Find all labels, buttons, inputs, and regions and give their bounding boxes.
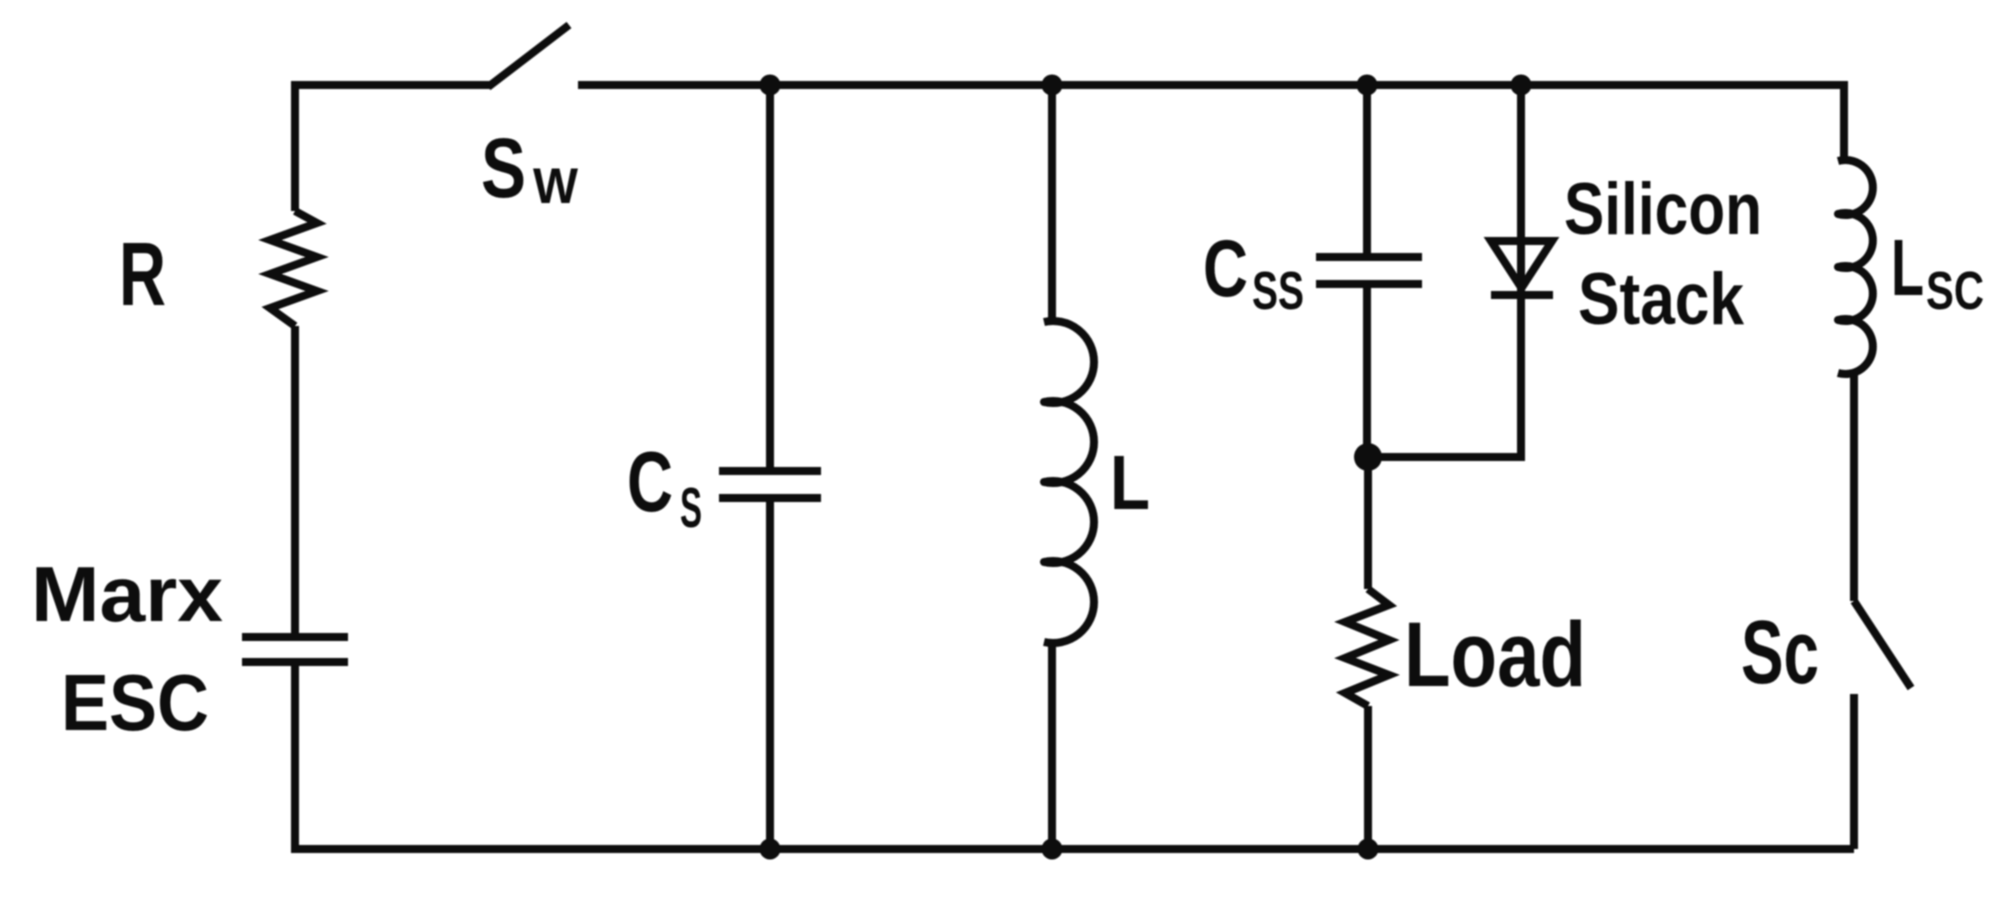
wire Cs branch lower <box>766 502 774 849</box>
svg-text:Marx: Marx <box>31 550 223 638</box>
node Css Load diode junction <box>1354 443 1382 471</box>
wire L branch upper <box>1048 85 1056 322</box>
svg-text:Load: Load <box>1404 604 1586 706</box>
wire right branch lower <box>1850 694 1858 849</box>
switch Sc blade <box>1854 601 1911 688</box>
svg-text:Stack: Stack <box>1578 259 1744 340</box>
wire right branch middle <box>1850 370 1858 601</box>
resistor Load <box>1345 589 1389 706</box>
node top L <box>1042 75 1063 96</box>
capacitor Css <box>1316 257 1422 284</box>
node bottom Cs <box>760 839 781 860</box>
svg-text:W: W <box>533 158 579 214</box>
wire top rail left segment <box>295 81 490 89</box>
diode cathode bar <box>1491 291 1553 299</box>
capacitor Cs <box>719 471 821 498</box>
svg-text:Sc: Sc <box>1741 603 1819 703</box>
inductor Lsc <box>1838 160 1873 374</box>
node top Css <box>1357 75 1378 96</box>
svg-text:SC: SC <box>1926 261 1984 321</box>
node bottom Load <box>1358 839 1379 860</box>
capacitor Marx ESC <box>242 637 348 662</box>
wire diode to node <box>1368 453 1525 461</box>
wire L branch lower <box>1048 642 1056 849</box>
wire Cs branch upper <box>766 85 774 467</box>
wire node to Load resistor <box>1364 457 1372 589</box>
wire left branch middle <box>291 326 299 633</box>
wire Load lower <box>1364 706 1372 849</box>
wire left branch lower <box>291 666 299 849</box>
wire top rail right segment <box>578 81 1844 89</box>
svg-text:SS: SS <box>1252 261 1304 321</box>
svg-text:C: C <box>1203 224 1248 314</box>
svg-text:C: C <box>627 435 673 530</box>
wire diode branch upper <box>1517 85 1525 457</box>
node bottom L <box>1042 839 1063 860</box>
svg-text:ESC: ESC <box>61 658 209 747</box>
wire Css branch upper <box>1363 85 1371 253</box>
wire left branch upper <box>291 81 299 211</box>
wire bottom rail <box>291 845 1854 853</box>
svg-text:Silicon: Silicon <box>1564 169 1762 250</box>
node top Cs <box>760 75 781 96</box>
svg-text:R: R <box>119 225 166 325</box>
diode Silicon Stack triangle <box>1491 241 1552 288</box>
resistor R <box>270 211 317 326</box>
svg-text:L: L <box>1110 440 1150 526</box>
wire Css to node <box>1363 288 1371 461</box>
switch SW blade <box>488 25 569 87</box>
svg-text:S: S <box>680 476 702 540</box>
wire right branch upper <box>1840 81 1848 163</box>
svg-text:S: S <box>481 121 526 215</box>
inductor L <box>1044 321 1094 643</box>
svg-text:L: L <box>1891 223 1924 312</box>
node top diode <box>1511 75 1532 96</box>
